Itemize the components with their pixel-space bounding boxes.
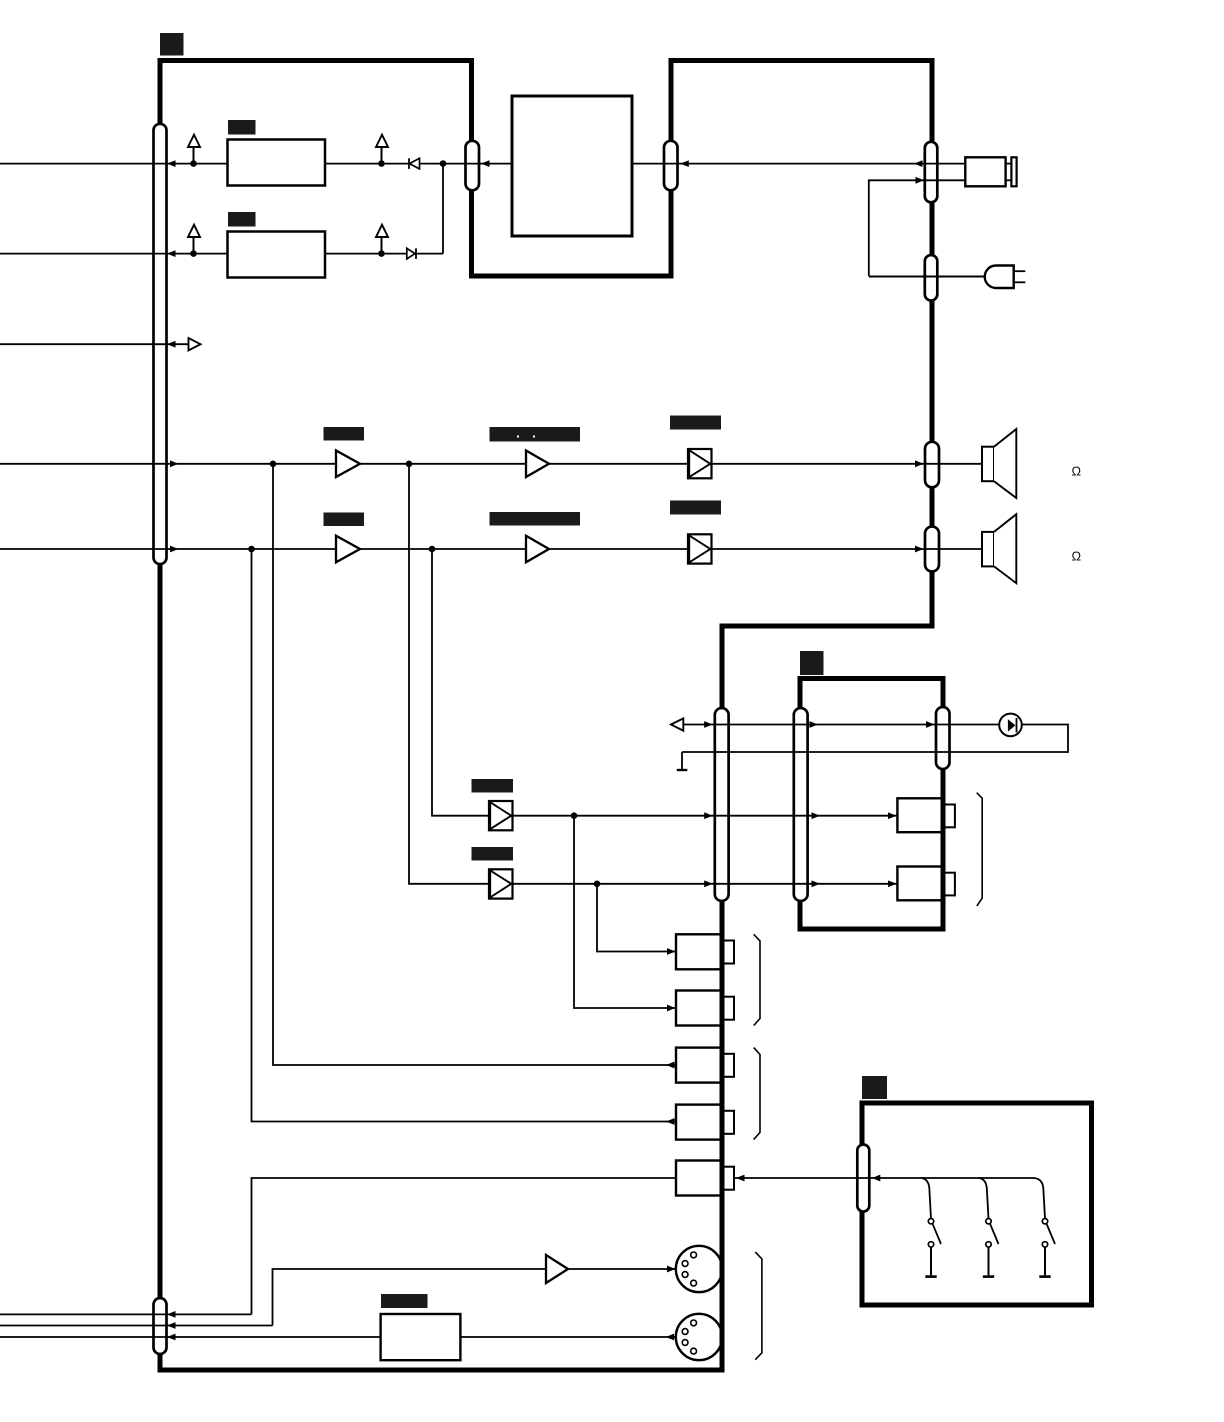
switch SW2 (979, 1178, 989, 1219)
junction dot row2 (190, 250, 197, 257)
connector CN11 (box4 left edge pill) (857, 1145, 869, 1212)
wire row2 left (into bus) (0, 253, 228, 255)
wire block1 right to node (325, 163, 512, 165)
wire column x=432 (to line-out 1) (432, 549, 489, 816)
open up-arrow row2b (376, 225, 388, 237)
arrow L4 into CN8 (704, 880, 713, 887)
connector CN6 (speaker R pill) (925, 442, 939, 488)
DIN connector DIN2 (MIDI IN) (676, 1314, 722, 1360)
phone jack J1 (676, 934, 722, 969)
diode D2 (cathode-right) (407, 248, 415, 259)
wire A3 to A4 (360, 548, 526, 550)
connector CN7 (speaker L pill) (925, 527, 939, 572)
arrow L3 into CN8 (704, 812, 713, 819)
arrow out of CN1 row5 (170, 546, 179, 553)
arrow L4 after CN9 (812, 880, 821, 887)
label block2 (redacted) (228, 212, 256, 227)
port indicator (open left triangle, line L1) (671, 718, 683, 730)
wire MIDI-in to block (460, 1336, 676, 1338)
arrow L1 into CN8 (704, 721, 713, 728)
node stem row2b (381, 237, 383, 254)
phone jack J2 (676, 991, 722, 1026)
wire A5 to DIN1 (568, 1268, 676, 1270)
wire bottom bus line1 (left) (0, 1313, 252, 1315)
switch SW1 (922, 1178, 932, 1219)
connector CN1 (main bus pill, left) (154, 124, 167, 564)
wire row3 (bidirectional port) (0, 343, 189, 345)
wire row5 (speaker L chain) (0, 548, 336, 550)
arrow out of CN11 (872, 1175, 881, 1182)
wire attenuator to CN6 (712, 463, 983, 465)
block2 (label redacted) (228, 232, 326, 278)
bracket jacks J1-J2 (754, 934, 760, 1025)
bracket box3 jacks (977, 793, 983, 906)
wire phones 2 drop (574, 816, 676, 1008)
connector CN9 (pill B on box3 left edge) (794, 708, 808, 901)
switch SW3 (1035, 1178, 1046, 1219)
node stem row1b (381, 147, 383, 164)
wire row1 left (into bus) (0, 163, 228, 165)
wire node column (443) (442, 164, 444, 254)
svg-text:Ω: Ω (1072, 464, 1082, 479)
label block1 (redacted) (228, 120, 256, 135)
wire DSP to CN3/CN4 (row1 continuation) (632, 163, 965, 165)
wire L1 (control to LED) (683, 724, 999, 726)
buffer U3 (label redacted) (472, 779, 514, 793)
DIN connector DIN1 (MIDI OUT) (676, 1246, 722, 1292)
wire column x=273 (aux R) (273, 464, 676, 1065)
diode D1 (cathode-left) (408, 158, 410, 169)
arrow into CN7 (915, 546, 924, 553)
junction dot L4 (594, 881, 601, 888)
wire jack J5 to bottom bus (252, 1178, 677, 1314)
arrow into CN12 line2 (167, 1322, 176, 1329)
connector CN12 (bottom-left pill) (154, 1298, 167, 1354)
jack board outline (box3, thick) (800, 679, 943, 930)
wire A2 to attenuator (549, 463, 688, 465)
connector CN4 (DC jack pill) (925, 142, 938, 203)
svg-text:Ω: Ω (1072, 549, 1082, 564)
attenuator U2 (label redacted) (670, 501, 721, 515)
connector CN8 (pill A on main right edge) (715, 708, 729, 901)
arrow into jack J1 (667, 948, 676, 955)
junction dot row4b (406, 461, 413, 468)
label MIDI block (redacted) (381, 1294, 428, 1308)
wire column x=251.5 (aux L) (252, 549, 677, 1122)
connector CN2 (box1 right edge pill) (466, 141, 480, 191)
arrow after CN3 (680, 160, 689, 167)
wire AC-adaptor return (into CN4) (869, 180, 966, 276)
speaker SP-R (982, 447, 994, 482)
arrow aux L (toward bus) (666, 1118, 675, 1125)
arrow MIDI-in (toward block) (666, 1334, 675, 1341)
phone jack J4 (676, 1105, 722, 1140)
wire box3 right edge overdraw (thick, over jack bodies) (941, 771, 946, 927)
LED DS1 (999, 714, 1022, 737)
arrow into CN1 row3 (167, 341, 176, 348)
amp A4 (label redacted) (490, 512, 581, 526)
arrow into jack J5 nub (736, 1175, 745, 1182)
wire bottom bus line2 (left) (0, 1325, 273, 1327)
wire A4 to attenuator (549, 548, 688, 550)
phone jack J6 (box3 upper) (897, 798, 942, 832)
wire MIDI-out riser (273, 1269, 547, 1326)
label box4 (redacted black square) (862, 1076, 887, 1099)
wire column x=409 (to line-out 2) (409, 464, 489, 884)
arrow L4 into jack J7 (888, 880, 897, 887)
wire attenuator to CN7 (712, 548, 983, 550)
junction dot row5b (429, 546, 436, 553)
arrow L3 into jack J6 (888, 812, 897, 819)
MIDI block (label redacted) (381, 1314, 461, 1360)
arrow into CN1 row2 (167, 250, 176, 257)
arrow aux R (toward bus) (666, 1062, 675, 1069)
junction dot row1b (378, 160, 385, 167)
open up-arrow row1a (188, 135, 200, 147)
DC jack J-DC (barrel plug) (965, 157, 1005, 186)
amp A3 (label redacted) (324, 513, 365, 527)
arrow before CN4 (914, 160, 923, 167)
attenuator U1 (label redacted) (670, 416, 721, 430)
amp A5 (MIDI out driver) (546, 1255, 568, 1283)
wire LED return loop (682, 725, 1068, 753)
wire A1 to A2 (360, 463, 526, 465)
wire main right edge overdraw (thick, over jack bodies) (720, 903, 725, 1373)
wire block2 right to diode (325, 253, 443, 255)
speaker SP-L (982, 532, 994, 567)
label box3 (redacted black square) (800, 651, 824, 675)
junction dot row1c (440, 160, 447, 167)
block1 (label redacted) (228, 140, 326, 186)
amp A2 (label redacted) (490, 427, 581, 442)
wire phones 1 drop (597, 884, 676, 952)
wire row4 (speaker R chain) (0, 463, 336, 465)
ground GND1 (681, 752, 683, 770)
label box1 (redacted black square) (160, 33, 184, 56)
open up-arrow row2a (188, 225, 200, 237)
wire L4 (line out 2 chain) (513, 883, 898, 885)
wire L3 (line out 1 chain) (513, 815, 898, 817)
switch board outline (box4, thick) (862, 1103, 1092, 1305)
arrow into CN12 line3 (167, 1334, 176, 1341)
arrow into CN4 lower pin (916, 177, 925, 184)
phone jack J3 (676, 1048, 722, 1083)
arrow L3 after CN9 (812, 812, 821, 819)
bracket DIN pair (755, 1252, 762, 1360)
arrow into CN12 line1 (167, 1311, 176, 1318)
arrow into CN6 (915, 460, 924, 467)
connector CN5 (AC pill) (925, 255, 938, 301)
wire jack J5 to box4 (734, 1177, 1035, 1179)
arrow L1 into CN10 (926, 721, 935, 728)
junction dot row5a (248, 546, 255, 553)
junction dot row2b (378, 250, 385, 257)
open right-triangle row3 (189, 338, 201, 350)
buffer U4 (label redacted) (472, 847, 514, 861)
arrow into CN2 (481, 160, 490, 167)
connector CN3 (box2 left edge pill) (664, 141, 678, 191)
DSP block (white rectangle) (512, 96, 632, 236)
AC plug prongs (1014, 270, 1026, 272)
wire CN5 to AC line (869, 276, 985, 278)
phone jack J5 (sustain) (676, 1161, 722, 1196)
junction dot L3 (571, 812, 578, 819)
arrow out of CN1 row4 (170, 460, 179, 467)
connector CN10 (pill C on box3 right edge) (936, 707, 950, 769)
bracket jacks J3-J4 (754, 1048, 760, 1140)
phone jack J7 (box3 lower) (897, 867, 942, 901)
arrow into DIN1 (667, 1266, 676, 1273)
arrow into CN1 row1 (167, 160, 176, 167)
amp A1 (label redacted) (324, 427, 365, 441)
arrow into jack J2 (667, 1005, 676, 1012)
wire bottom bus line3 (left) (0, 1336, 381, 1338)
AC plug P1 (985, 266, 1014, 289)
node row1 stem (193, 147, 195, 164)
arrow L1 after CN9 (810, 721, 819, 728)
open up-arrow row1b (376, 135, 388, 147)
main board outline (thick) (160, 61, 932, 1371)
junction dot row4a (270, 461, 277, 468)
node row2 stem (193, 237, 195, 254)
junction dot row1 (190, 160, 197, 167)
